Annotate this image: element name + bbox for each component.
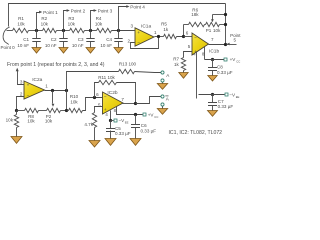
svg-text:CC: CC — [154, 115, 158, 119]
wire IC2b pin8 to +V — [114, 107, 143, 115]
wire node4 to IC1a pin3 — [112, 30, 135, 32]
svg-text:EE: EE — [236, 95, 240, 99]
svg-text:Point 0: Point 0 — [1, 45, 16, 50]
node rail junction — [65, 89, 68, 92]
resistor R3 10k — [68, 16, 85, 33]
svg-text:1k: 1k — [174, 62, 180, 67]
resistor R8 10k — [17, 108, 47, 123]
ground — [157, 109, 167, 115]
op-amp IC1b — [186, 31, 220, 55]
capacitor C2 10 nF — [45, 31, 68, 48]
wire IC1b pin5 — [184, 52, 193, 58]
capacitor C7 0.33uF — [208, 95, 233, 111]
resistor 10k to ground — [6, 111, 19, 137]
svg-text:R2: R2 — [41, 16, 47, 21]
svg-text:C7: C7 — [218, 99, 224, 104]
terminal +V supply — [224, 57, 240, 64]
wire top feedback rail — [9, 4, 226, 27]
capacitor C4 10 nF — [100, 31, 122, 48]
svg-text:0.33 µF: 0.33 µF — [115, 131, 131, 136]
svg-text:10k: 10k — [27, 119, 35, 124]
svg-text:4.7k: 4.7k — [84, 122, 93, 127]
ground — [157, 84, 167, 90]
capacitor C6 0.33uF — [131, 115, 156, 139]
wire R5 to IC1b pin6 riser — [177, 25, 184, 37]
node IC1a out junction — [157, 35, 160, 38]
node +V junction — [211, 58, 214, 61]
wire ladder row — [7, 30, 13, 32]
node Point 5 label — [227, 33, 242, 46]
svg-text:10k: 10k — [213, 28, 221, 33]
resistor R11 10k feedback — [95, 75, 136, 104]
resistor R1 10k — [13, 16, 29, 33]
wire right vertical bus — [225, 4, 227, 45]
potentiometer P2 10k — [45, 91, 67, 124]
svg-text:10k: 10k — [95, 21, 103, 26]
wire R10 to pin6 — [83, 98, 103, 111]
wire input from point 1 — [16, 68, 25, 85]
node Point 5 junction — [224, 43, 227, 46]
node point-4 junction — [117, 29, 120, 32]
wire IC1b pin8 to +V — [202, 47, 205, 60]
terminal -V supply — [111, 118, 129, 124]
node from-point-1 note — [7, 62, 105, 68]
svg-text:10k: 10k — [17, 21, 25, 26]
node +V junction — [134, 113, 137, 116]
ground — [208, 111, 218, 117]
svg-text:10k: 10k — [6, 117, 14, 122]
op-amp IC2b — [96, 90, 124, 114]
svg-text:−: − — [194, 35, 197, 40]
wire riser to feedback row — [66, 91, 68, 111]
resistor R5 1k — [161, 21, 176, 38]
svg-text:10k: 10k — [41, 21, 49, 26]
resistor R10 10k — [67, 94, 83, 113]
node point-1 junction — [35, 29, 38, 32]
wire IC1a feedback — [131, 37, 159, 49]
wire pin6 tap — [184, 36, 193, 38]
svg-text:Point 4: Point 4 — [130, 4, 145, 9]
ground — [114, 48, 123, 54]
wire tap point 2 — [64, 8, 86, 30]
ground — [105, 139, 116, 146]
resistor R7 1k — [173, 56, 186, 72]
node -V junction — [211, 93, 214, 96]
svg-text:IC2a: IC2a — [32, 77, 42, 83]
svg-text:+: + — [27, 83, 30, 88]
wire IC1b output to Point 5 — [209, 44, 226, 46]
resistor R6 18k — [184, 8, 205, 27]
wire ladder segment — [29, 30, 43, 32]
ground — [11, 137, 22, 144]
node IC2b out junction — [134, 102, 137, 105]
wire tap point 1 — [37, 10, 59, 31]
wire IC1a output — [155, 36, 164, 38]
svg-text:R5: R5 — [161, 21, 167, 26]
svg-text:IC1, IC2: TL082, TL072: IC1, IC2: TL082, TL072 — [169, 130, 223, 136]
capacitor C5 0.33uF — [106, 121, 131, 139]
ground — [59, 48, 68, 54]
svg-text:Point 2: Point 2 — [71, 8, 86, 13]
node wiper junction — [51, 89, 54, 92]
node R5 junction — [182, 35, 185, 38]
wire R13 to terminal A — [135, 72, 162, 73]
svg-text:10 nF: 10 nF — [17, 43, 29, 48]
svg-text:C1: C1 — [23, 37, 29, 42]
node point-3 junction — [89, 29, 92, 32]
wire IC1b pin4 to -V rail — [193, 52, 196, 99]
svg-text:10k: 10k — [70, 99, 78, 104]
wire IC2b pin4 to -V — [105, 111, 110, 121]
node pin6 junction — [93, 96, 96, 99]
node P1 wiper junction — [224, 13, 227, 16]
resistor 4.7k — [84, 113, 96, 141]
wire ladder segment — [57, 30, 70, 32]
svg-text:10 nF: 10 nF — [100, 43, 112, 48]
op-amp IC1a — [127, 23, 157, 46]
svg-text:−: − — [137, 41, 140, 46]
node Point 0 curve — [1, 27, 16, 50]
svg-text:−: − — [104, 95, 107, 100]
svg-text:0.33 µF: 0.33 µF — [141, 128, 157, 133]
terminal A — [161, 71, 170, 84]
svg-text:R7: R7 — [173, 56, 179, 61]
wire ladder segment — [85, 30, 97, 32]
svg-text:10k: 10k — [45, 119, 53, 124]
node -V junction — [109, 119, 112, 122]
node feedback left junction — [15, 109, 18, 112]
ground — [208, 76, 217, 82]
wire tap point 4 — [119, 4, 146, 30]
ground — [130, 139, 141, 146]
svg-text:EE: EE — [125, 120, 129, 124]
svg-text:+: + — [137, 30, 140, 35]
ground — [86, 48, 95, 54]
svg-text:IC1b: IC1b — [209, 48, 219, 54]
wire tap point 3 — [91, 8, 113, 30]
svg-text:−: − — [27, 93, 30, 98]
svg-text:0.33 µF: 0.33 µF — [217, 70, 233, 75]
capacitor C3 10 nF — [72, 31, 95, 48]
svg-text:C6: C6 — [141, 123, 147, 128]
resistor R4 10k — [95, 16, 112, 33]
svg-text:P1: P1 — [206, 28, 212, 33]
svg-text:IC2b: IC2b — [107, 90, 117, 96]
wire IC2b output — [123, 103, 136, 105]
op-amp IC2a — [20, 77, 48, 99]
node P1 right junction — [224, 23, 227, 26]
svg-text:IC1a: IC1a — [141, 23, 151, 29]
wire IC2b pin5 — [95, 107, 103, 113]
wire IC2a pin2 — [17, 97, 25, 111]
svg-text:Point 3: Point 3 — [98, 8, 113, 13]
svg-text:R11 10k: R11 10k — [98, 75, 115, 80]
svg-text:R4: R4 — [96, 16, 102, 21]
svg-text:10 nF: 10 nF — [45, 43, 57, 48]
potentiometer P1 10k — [205, 15, 226, 34]
node point-2 junction — [62, 29, 65, 32]
svg-text:CC: CC — [236, 60, 240, 64]
wire -V rail — [199, 94, 225, 96]
capacitor C8 0.33uF — [208, 60, 233, 76]
svg-text:C3: C3 — [78, 37, 84, 42]
capacitor C1 10 nF — [17, 31, 40, 48]
terminal +V supply — [143, 112, 158, 119]
svg-text:0.33 µF: 0.33 µF — [218, 104, 234, 109]
node feedback right junction — [65, 109, 68, 112]
terminal -V supply — [225, 92, 240, 99]
svg-text:18k: 18k — [191, 12, 199, 17]
svg-text:C4: C4 — [106, 37, 112, 42]
wire +V stub — [205, 59, 225, 61]
svg-text:10k: 10k — [68, 21, 76, 26]
wire step to terminal Abar — [136, 97, 161, 104]
svg-text:1k: 1k — [163, 27, 169, 32]
wire IC2a output — [45, 90, 67, 92]
svg-text:C2: C2 — [51, 37, 57, 42]
svg-text:R3: R3 — [68, 16, 74, 21]
resistor R2 10k — [41, 16, 57, 33]
svg-text:10 nF: 10 nF — [72, 43, 84, 48]
svg-text:R1: R1 — [18, 16, 24, 21]
resistor R13 100 — [119, 61, 137, 73]
wire rail riser to R13 row — [67, 72, 119, 91]
ground — [89, 141, 100, 148]
ground — [179, 73, 188, 79]
svg-text:C8: C8 — [217, 65, 223, 70]
svg-text:R13 100: R13 100 — [119, 61, 137, 66]
ground — [32, 48, 41, 54]
svg-text:Point 1: Point 1 — [43, 10, 58, 15]
svg-text:From point 1 (repeat for point: From point 1 (repeat for points 2, 3, an… — [7, 62, 105, 68]
terminal A-bar — [161, 95, 170, 109]
